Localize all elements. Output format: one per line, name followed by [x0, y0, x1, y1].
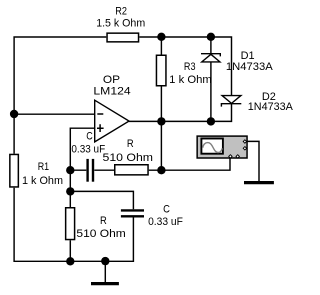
diode D2 zener 1N4733A: [221, 96, 241, 107]
capacitor C bottom (horizontal plates): [121, 210, 144, 216]
resistor R 510 vertical: [66, 208, 75, 240]
resistor R3: [156, 55, 166, 86]
node junction top R3: [157, 33, 165, 41]
oscilloscope XSC1: [197, 136, 247, 158]
wire lower node to bottom capacitor top: [70, 191, 133, 209]
svg-text:R: R: [100, 215, 107, 227]
wire output junction down to R junction: [160, 121, 162, 170]
node junction D1 anode: [207, 117, 215, 125]
svg-text:0.33 uF: 0.33 uF: [148, 216, 183, 228]
wire non-inverting input down to feedback node: [70, 128, 94, 170]
svg-text:510 Ohm: 510 Ohm: [103, 152, 154, 164]
wire R3 top lead: [160, 37, 162, 55]
svg-text:1 k Ohm: 1 k Ohm: [22, 175, 63, 187]
wire link between feedback nodes: [69, 170, 71, 191]
capacitor C feedback (vertical plates): [88, 159, 93, 182]
wire D1 bottom lead: [210, 62, 212, 121]
svg-text:R2: R2: [115, 5, 127, 17]
node junction bottom ground: [101, 257, 109, 265]
svg-text:LM124: LM124: [93, 85, 130, 97]
wire capacitor C to resistor R: [94, 169, 114, 171]
wire scope ground: [247, 141, 259, 181]
resistor R1: [10, 154, 19, 187]
svg-text:510 Ohm: 510 Ohm: [76, 228, 125, 240]
node junction R to scope: [157, 166, 165, 174]
wire R3 bottom lead: [160, 87, 162, 122]
svg-text:1N4733A: 1N4733A: [226, 61, 273, 73]
svg-text:1 k Ohm: 1 k Ohm: [169, 74, 212, 86]
wire inverting input: [14, 113, 95, 115]
svg-text:C: C: [163, 204, 170, 216]
wire resistor R to scope input: [149, 158, 230, 170]
svg-text:R3: R3: [184, 61, 196, 73]
wire top rail from R2 to D2 branch corner, down to D2 anode: [139, 37, 231, 96]
ground (scope): [244, 181, 274, 184]
svg-text:0.33 uF: 0.33 uF: [71, 143, 105, 155]
svg-text:OP: OP: [103, 74, 120, 86]
op-amp U1 LM124: [95, 100, 129, 142]
ground (bottom): [91, 282, 119, 285]
node junction inverting input tap: [10, 110, 18, 118]
wire op-amp output to D2 cathode: [129, 104, 232, 122]
wire bottom ground stub: [104, 261, 106, 282]
diode D1 zener 1N4733A: [201, 54, 220, 62]
svg-text:1N4733A: 1N4733A: [248, 101, 294, 113]
resistor R 510 horizontal: [115, 165, 148, 175]
svg-text:C: C: [86, 131, 93, 143]
svg-text:R1: R1: [38, 161, 49, 173]
wire left rail bottom and bottom rail to capacitor bottom: [14, 188, 133, 262]
wire feedback node to capacitor C: [70, 169, 86, 171]
resistor R2: [107, 33, 139, 42]
node junction op-amp output: [157, 117, 165, 125]
node junction feedback C input: [66, 166, 74, 174]
wire top rail left and left rail down to R1: [14, 37, 106, 154]
wire lower 510 resistor top lead: [69, 191, 71, 207]
node junction bottom resistor: [66, 257, 74, 265]
wire lower 510 resistor bottom lead: [69, 240, 71, 261]
svg-text:1.5 k Ohm: 1.5 k Ohm: [96, 18, 145, 30]
node junction top D1: [207, 33, 215, 41]
wire D1 top lead: [210, 37, 212, 53]
svg-text:R: R: [127, 138, 134, 150]
node junction lower feedback: [66, 187, 74, 195]
